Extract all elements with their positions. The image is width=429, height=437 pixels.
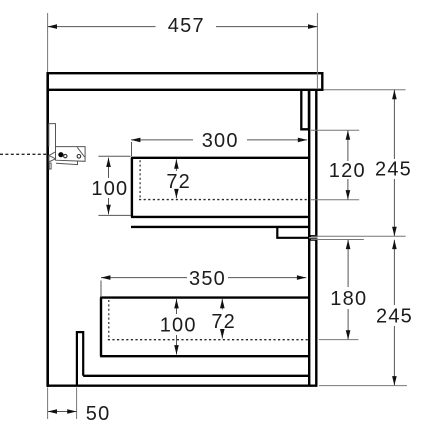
extension line 245 bottom (319, 385, 407, 387)
svg-text:120: 120 (329, 160, 366, 182)
svg-text:180: 180 (330, 288, 367, 310)
bottom shelf top line (83, 375, 309, 377)
wall bracket dashed axis (0, 153, 47, 155)
dimension 100 lower (176, 299, 178, 355)
bracket hole 2 (77, 155, 81, 159)
extension lines 50 (48, 388, 77, 420)
extension line 180 bottom (319, 339, 359, 341)
svg-text:245: 245 (376, 305, 413, 327)
dimension 180 (347, 240, 349, 340)
dimension 120 (347, 130, 349, 199)
svg-text:457: 457 (168, 15, 205, 37)
bracket wedge at panel (49, 152, 56, 162)
bracket pin dot (58, 152, 63, 157)
extension line counter bottom right (324, 89, 406, 91)
extension lines 120 (311, 130, 359, 200)
dimension 100 upper (98, 156, 130, 215)
dimension 50 line (48, 411, 77, 413)
svg-text:300: 300 (202, 130, 239, 152)
slide step block (277, 228, 309, 238)
toe-kick leg (77, 332, 83, 386)
svg-text:50: 50 (86, 403, 111, 425)
mid rail line (131, 226, 309, 228)
svg-text:350: 350 (189, 268, 226, 290)
lower drawer dotted side line (108, 300, 110, 339)
bottom panel bottom line (47, 385, 318, 387)
dimension 72 lower (221, 299, 223, 339)
gap extension line short (311, 239, 364, 241)
wall bracket body (56, 147, 86, 162)
extension lines 457 (48, 13, 318, 89)
countertop (48, 73, 323, 90)
dimension 457 line (48, 26, 318, 28)
bracket fold corner (77, 147, 85, 157)
hanging rail strip (301, 91, 309, 130)
svg-text:245: 245 (375, 159, 412, 181)
left side panel (46, 73, 49, 387)
dimension 350 line (101, 278, 306, 296)
svg-text:100: 100 (160, 315, 197, 337)
upper drawer dotted side line (139, 160, 141, 199)
dimension 245 upper (393, 90, 395, 236)
svg-text:100: 100 (91, 178, 128, 200)
bracket hole 1 (64, 154, 67, 157)
gap extension line long (311, 235, 406, 237)
lower drawer box (100, 298, 309, 357)
svg-text:72: 72 (211, 311, 236, 333)
dimension 300 line (131, 140, 307, 156)
upper drawer dashed depth line (139, 199, 308, 201)
bracket bottom lip (56, 161, 78, 165)
upper drawer front panel (308, 91, 318, 236)
upper drawer box (131, 158, 309, 217)
dimension 72 upper (175, 159, 177, 198)
lower drawer front panel (308, 240, 318, 386)
dimension 245 lower (393, 240, 395, 386)
svg-text:72: 72 (166, 171, 191, 193)
lower drawer dashed depth line (108, 339, 308, 341)
bracket lower tab (49, 163, 51, 169)
wall bracket plate (49, 124, 56, 147)
